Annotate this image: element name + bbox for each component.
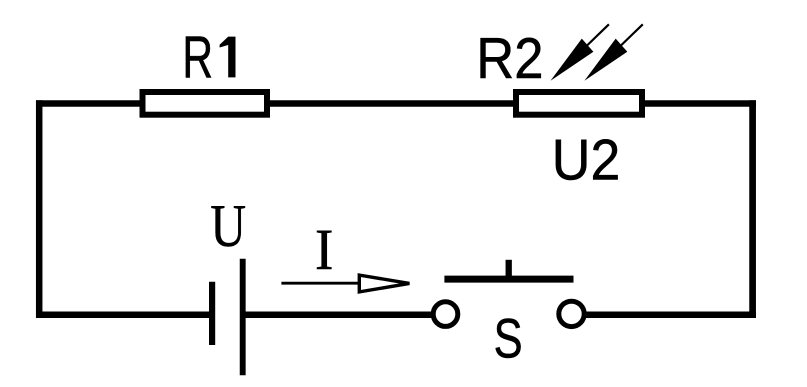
svg-text:S: S [494, 307, 523, 370]
label R1 [182, 24, 235, 91]
wire right [749, 100, 756, 318]
wire top [36, 100, 756, 106]
light arrow 1 [551, 24, 609, 81]
svg-text:U2: U2 [552, 128, 620, 192]
svg-text:U: U [210, 192, 246, 259]
current arrow I shaft [281, 282, 363, 285]
wire bottom-left to battery [36, 312, 212, 319]
current arrow I head [359, 275, 409, 292]
wire switch to bottom-right [581, 312, 756, 319]
wire battery to switch [243, 312, 436, 319]
svg-text:R: R [182, 24, 213, 91]
resistor R1 [143, 92, 268, 115]
svg-text:I: I [315, 218, 333, 283]
battery cell: short plate (negative) [209, 282, 215, 345]
light arrow 2 [584, 24, 642, 81]
wire left [36, 100, 43, 318]
switch terminal left [433, 302, 458, 327]
resistor R2 (photoresistor) [516, 92, 642, 115]
switch terminal right [559, 301, 584, 326]
svg-text:R2: R2 [476, 26, 543, 91]
switch S stem [506, 260, 512, 279]
switch S bar [444, 276, 573, 283]
battery cell: long plate (positive) [240, 259, 246, 376]
